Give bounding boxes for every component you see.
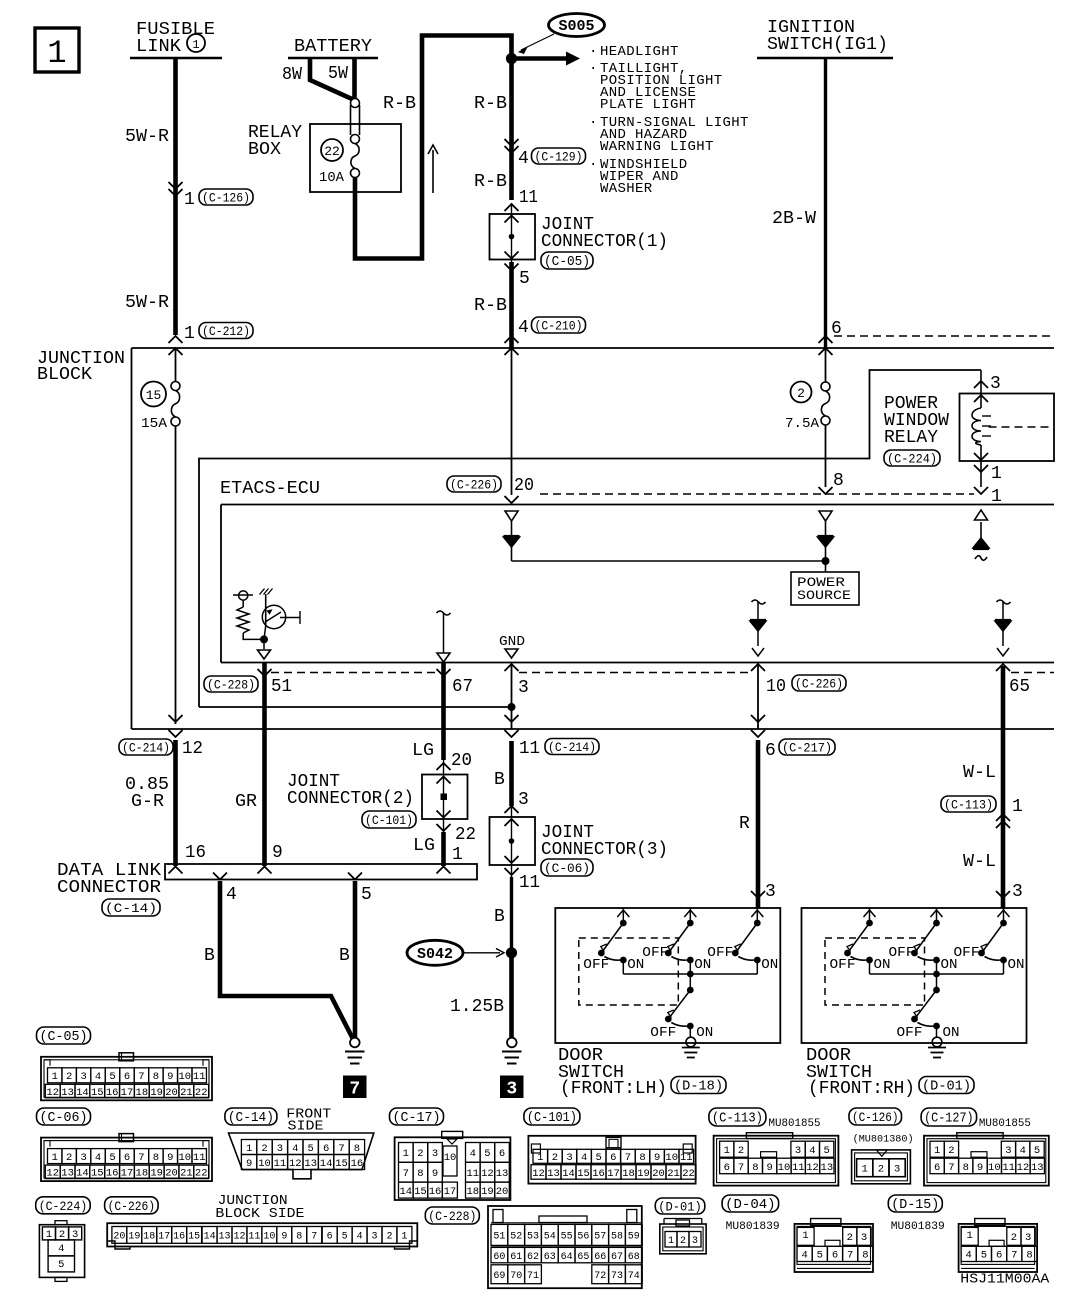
svg-text:4: 4 — [1020, 1145, 1026, 1157]
connector C-17 pinout — [395, 1137, 511, 1200]
svg-text:11: 11 — [519, 873, 540, 893]
svg-text:5: 5 — [1034, 1145, 1040, 1157]
svg-text:15: 15 — [91, 1087, 104, 1099]
dashed branch line top right — [834, 335, 1054, 337]
svg-text:14: 14 — [204, 1232, 216, 1243]
svg-text:(C-14): (C-14) — [105, 901, 157, 916]
svg-text:SWITCH(IG1): SWITCH(IG1) — [767, 35, 888, 55]
svg-text:(MU801380): (MU801380) — [853, 1134, 914, 1146]
svg-text:5: 5 — [342, 1232, 348, 1243]
svg-text:R-B: R-B — [474, 94, 507, 114]
svg-text:OFF: OFF — [830, 957, 856, 973]
svg-text:1: 1 — [52, 1152, 58, 1164]
svg-text:(FRONT:LH): (FRONT:LH) — [560, 1079, 667, 1099]
dlc pin 4 — [213, 873, 227, 880]
svg-text:11: 11 — [466, 1168, 479, 1180]
svg-text:62: 62 — [527, 1252, 539, 1263]
svg-text:GR: GR — [235, 792, 257, 812]
svg-text:8: 8 — [862, 1250, 868, 1262]
connector C-06 label — [37, 1108, 91, 1125]
svg-text:13: 13 — [61, 1087, 74, 1099]
svg-text:2: 2 — [66, 1152, 72, 1164]
relay output arrow pin 1 ecu — [974, 487, 988, 494]
ecu pin 65 — [996, 664, 1010, 671]
svg-text:1: 1 — [668, 1236, 674, 1247]
svg-text:(C-228): (C-228) — [428, 1209, 476, 1224]
connector C-101 pinout — [528, 1136, 695, 1184]
svg-text:8: 8 — [1026, 1250, 1032, 1262]
ignition switch terminal bar — [757, 57, 893, 60]
svg-text:W-L: W-L — [963, 763, 996, 783]
svg-text:(C-126): (C-126) — [202, 191, 250, 206]
etacs ecu inner box — [221, 504, 1054, 506]
svg-text:2: 2 — [948, 1145, 954, 1157]
svg-text:5: 5 — [361, 885, 372, 905]
dashed pin row line 1 — [271, 672, 437, 674]
joint connector 1 box — [505, 204, 519, 211]
svg-text:2: 2 — [680, 1236, 686, 1247]
svg-text:51: 51 — [271, 677, 292, 697]
svg-text:3: 3 — [765, 882, 776, 902]
door switch front LH box — [555, 908, 780, 1043]
svg-text:68: 68 — [628, 1252, 640, 1263]
svg-text:63: 63 — [544, 1252, 556, 1263]
svg-text:ON: ON — [1008, 957, 1025, 973]
dashed pin row line 2 — [519, 672, 751, 674]
connector C-224 pinout — [39, 1225, 84, 1278]
svg-text:6: 6 — [327, 1232, 333, 1243]
svg-text:2: 2 — [417, 1148, 423, 1160]
connector C-126 pass-through — [169, 189, 183, 196]
svg-text:8: 8 — [963, 1162, 969, 1174]
svg-text:(C-05): (C-05) — [544, 255, 590, 270]
diode from pin 20 — [505, 511, 518, 521]
diode from relay pin 1 — [975, 510, 988, 520]
svg-text:G-R: G-R — [131, 792, 164, 812]
svg-text:·: · — [589, 61, 597, 77]
svg-text:S042: S042 — [417, 946, 453, 963]
svg-text:(FRONT:RH): (FRONT:RH) — [808, 1079, 915, 1099]
wire 2B-W — [824, 58, 827, 348]
fusible link terminal bar — [130, 57, 222, 60]
svg-text:72: 72 — [594, 1271, 606, 1282]
svg-text:1: 1 — [47, 35, 66, 72]
svg-text:73: 73 — [611, 1271, 623, 1282]
svg-text:18: 18 — [136, 1168, 149, 1180]
svg-text:·: · — [589, 44, 597, 60]
svg-text:R-B: R-B — [383, 94, 416, 114]
svg-text:13: 13 — [61, 1168, 74, 1180]
svg-text:B: B — [494, 907, 505, 927]
svg-text:4: 4 — [470, 1148, 476, 1160]
svg-text:6: 6 — [124, 1071, 130, 1083]
svg-text:2: 2 — [797, 386, 805, 401]
svg-text:11: 11 — [1002, 1162, 1015, 1174]
svg-text:OFF: OFF — [650, 1025, 676, 1041]
wire battery right 5W — [352, 58, 357, 99]
dashed pin row line 3 — [1011, 672, 1054, 674]
current direction arrow — [432, 150, 434, 193]
svg-text:12: 12 — [806, 1162, 819, 1174]
svg-text:71: 71 — [527, 1271, 539, 1282]
power window relay box — [960, 394, 1055, 462]
svg-text:OFF: OFF — [707, 945, 733, 961]
svg-text:10: 10 — [178, 1152, 191, 1164]
power window relay feed wire — [199, 370, 981, 707]
connector C-214 left — [119, 739, 173, 755]
connector C-226 label — [105, 1197, 159, 1214]
svg-text:8: 8 — [639, 1152, 645, 1164]
splice S042 pointer arrow — [464, 952, 501, 954]
svg-text:4: 4 — [226, 885, 237, 905]
svg-text:(C-217): (C-217) — [782, 741, 832, 756]
svg-text:17: 17 — [121, 1087, 134, 1099]
svg-text:HSJ11M00AA: HSJ11M00AA — [960, 1272, 1050, 1288]
svg-text:59: 59 — [628, 1232, 640, 1243]
svg-text:67: 67 — [611, 1252, 623, 1263]
svg-text:(D-18): (D-18) — [674, 1080, 723, 1095]
svg-text:60: 60 — [493, 1252, 505, 1263]
svg-text:13: 13 — [547, 1168, 560, 1180]
svg-text:10A: 10A — [319, 170, 345, 186]
page number box 1 — [35, 28, 79, 72]
svg-text:5: 5 — [596, 1152, 602, 1164]
connector C-210 — [505, 336, 519, 343]
svg-text:1: 1 — [724, 1145, 730, 1157]
svg-text:3: 3 — [795, 1145, 801, 1157]
svg-text:CONNECTOR(2): CONNECTOR(2) — [287, 789, 414, 809]
svg-text:58: 58 — [611, 1232, 623, 1243]
ecu pin 51 — [258, 669, 272, 676]
wire W-L upper — [1001, 666, 1006, 908]
svg-text:OFF: OFF — [642, 945, 668, 961]
svg-text:1: 1 — [184, 190, 195, 210]
ground tag 3 — [500, 1076, 524, 1099]
svg-text:15: 15 — [577, 1168, 590, 1180]
wire R-B to joint connector 1 — [509, 61, 514, 200]
svg-text:7: 7 — [311, 1232, 317, 1243]
svg-text:LG: LG — [412, 741, 434, 761]
svg-text:GND: GND — [499, 634, 525, 650]
wire 5W-R upper — [173, 58, 178, 335]
svg-text:MU801839: MU801839 — [726, 1221, 780, 1233]
svg-text:18: 18 — [466, 1186, 479, 1198]
svg-text:12: 12 — [233, 1232, 245, 1243]
svg-text:6: 6 — [124, 1152, 130, 1164]
svg-text:9: 9 — [281, 1232, 287, 1243]
connector C-14 label — [225, 1108, 277, 1125]
svg-text:(C-05): (C-05) — [40, 1030, 88, 1045]
junction block exit chevrons fusible wire — [169, 715, 183, 722]
svg-text:16: 16 — [106, 1087, 119, 1099]
svg-text:1: 1 — [184, 324, 195, 344]
label pin 11 jc3 — [505, 868, 519, 875]
svg-text:11: 11 — [274, 1158, 287, 1170]
svg-text:6: 6 — [724, 1162, 730, 1174]
connector C-224 label — [36, 1197, 90, 1214]
svg-text:17: 17 — [121, 1168, 134, 1180]
svg-text:5W-R: 5W-R — [125, 127, 169, 147]
svg-text:2: 2 — [1011, 1232, 1017, 1244]
connector C-127 pinout — [924, 1136, 1049, 1186]
power source box — [791, 572, 859, 605]
svg-text:5: 5 — [109, 1152, 115, 1164]
svg-text:(C-214): (C-214) — [548, 740, 596, 755]
svg-text:9: 9 — [246, 1158, 252, 1170]
svg-text:4: 4 — [58, 1243, 64, 1255]
svg-text:(C-226): (C-226) — [450, 478, 498, 493]
svg-text:W-L: W-L — [963, 852, 996, 872]
svg-text:WASHER: WASHER — [600, 181, 653, 197]
svg-text:(D-01): (D-01) — [922, 1080, 971, 1095]
svg-text:BLOCK: BLOCK — [37, 365, 92, 385]
svg-text:ON: ON — [761, 957, 778, 973]
svg-text:16: 16 — [592, 1168, 605, 1180]
connector D-01 label — [655, 1198, 705, 1214]
fusible link element in relay box — [351, 99, 360, 108]
data link connector box — [165, 864, 477, 880]
svg-text:21: 21 — [667, 1168, 680, 1180]
svg-text:15: 15 — [335, 1158, 348, 1170]
wire battery left 8W — [310, 58, 352, 99]
svg-text:(C-214): (C-214) — [122, 741, 170, 756]
svg-text:3: 3 — [372, 1232, 378, 1243]
svg-text:2: 2 — [386, 1232, 392, 1243]
svg-text:20: 20 — [451, 751, 472, 771]
connector C-126 label — [849, 1108, 902, 1125]
splice S005 pointer — [521, 34, 554, 50]
ecu pin 10 — [751, 664, 765, 671]
lamp symbol — [233, 594, 253, 596]
svg-text:(C-224): (C-224) — [39, 1199, 88, 1214]
svg-text:67: 67 — [452, 677, 473, 697]
svg-text:1: 1 — [537, 1152, 543, 1164]
ground tag 7 — [343, 1076, 367, 1099]
svg-text:3: 3 — [566, 1152, 572, 1164]
svg-text:(C-127): (C-127) — [924, 1112, 974, 1127]
svg-text:BLOCK SIDE: BLOCK SIDE — [215, 1206, 304, 1222]
wire B to splice S042 — [510, 877, 513, 953]
svg-text:(D-15): (D-15) — [891, 1198, 939, 1213]
svg-text:70: 70 — [510, 1271, 522, 1282]
svg-text:9: 9 — [272, 843, 283, 863]
svg-text:16: 16 — [173, 1232, 185, 1243]
svg-text:R-B: R-B — [474, 172, 507, 192]
svg-text:1: 1 — [966, 1230, 972, 1242]
svg-text:MU801855: MU801855 — [769, 1118, 821, 1130]
svg-text:7: 7 — [138, 1071, 144, 1083]
svg-text:5: 5 — [981, 1250, 987, 1262]
svg-text:(C-126): (C-126) — [852, 1110, 899, 1125]
svg-text:2B-W: 2B-W — [772, 209, 816, 229]
svg-text:5: 5 — [823, 1145, 829, 1157]
svg-text:3: 3 — [518, 790, 529, 810]
svg-text:6: 6 — [765, 741, 776, 761]
svg-text:10: 10 — [766, 677, 786, 697]
svg-text:1: 1 — [991, 464, 1002, 484]
wire B dlc5 — [353, 881, 358, 1038]
svg-text:16: 16 — [185, 843, 206, 863]
svg-text:MU801855: MU801855 — [979, 1118, 1031, 1130]
svg-text:6: 6 — [832, 1250, 838, 1262]
connector C-113 label — [709, 1108, 766, 1126]
svg-text:5: 5 — [58, 1259, 64, 1271]
joint connector 2 box — [422, 775, 468, 820]
svg-text:6: 6 — [499, 1148, 505, 1160]
relay pin 3 — [974, 381, 988, 388]
svg-text:(C-101): (C-101) — [527, 1111, 577, 1126]
ecu pin 67 internal — [437, 611, 451, 615]
svg-text:ETACS-ECU: ETACS-ECU — [220, 479, 320, 499]
wire GR — [262, 663, 267, 866]
svg-text:13: 13 — [1031, 1162, 1044, 1174]
svg-text:(C-17): (C-17) — [393, 1111, 441, 1126]
svg-text:3: 3 — [1025, 1232, 1031, 1244]
svg-text:15A: 15A — [141, 416, 168, 432]
resistor — [237, 607, 249, 633]
svg-text:CONNECTOR(3): CONNECTOR(3) — [541, 840, 668, 860]
svg-text:1: 1 — [802, 1230, 808, 1242]
connector C-113 pinout — [714, 1136, 839, 1186]
svg-text:5W: 5W — [328, 64, 348, 84]
svg-text:(C-101): (C-101) — [365, 813, 413, 828]
splice S042 node dot — [506, 947, 517, 958]
svg-text:19: 19 — [128, 1232, 140, 1243]
svg-text:2: 2 — [847, 1232, 853, 1244]
svg-text:SIDE: SIDE — [288, 1119, 324, 1135]
svg-text:2: 2 — [878, 1164, 884, 1176]
svg-text:10: 10 — [778, 1162, 791, 1174]
diode from pin 8 — [819, 511, 832, 521]
svg-text:4: 4 — [518, 149, 529, 169]
ecu pin 10 internal diode — [752, 600, 766, 604]
svg-text:56: 56 — [577, 1232, 589, 1243]
wire B upper — [509, 741, 514, 806]
connector D-04 label — [722, 1195, 779, 1212]
svg-text:7: 7 — [948, 1162, 954, 1174]
svg-text:(C-113): (C-113) — [944, 798, 993, 813]
svg-text:14: 14 — [76, 1168, 89, 1180]
connector C-05 pinout — [41, 1057, 212, 1101]
svg-text:BATTERY: BATTERY — [294, 37, 372, 57]
svg-text:21: 21 — [180, 1087, 193, 1099]
svg-text:(D-01): (D-01) — [658, 1200, 702, 1215]
svg-text:61: 61 — [510, 1252, 522, 1263]
svg-text:CONNECTOR(1): CONNECTOR(1) — [541, 232, 668, 252]
connector C-228 label — [425, 1207, 479, 1224]
svg-text:3: 3 — [894, 1164, 900, 1176]
svg-text:SOURCE: SOURCE — [797, 588, 851, 603]
splice S005 node dot — [506, 53, 517, 64]
wire 1.25B — [509, 953, 514, 1038]
svg-text:19: 19 — [150, 1168, 163, 1180]
ground G3 — [507, 1038, 517, 1048]
wire battery to splice S005 — [355, 36, 512, 259]
svg-text:8: 8 — [296, 1232, 302, 1243]
svg-text:22: 22 — [195, 1168, 208, 1180]
fuse 15 15A — [141, 382, 166, 407]
connector D-15 pinout — [959, 1224, 1038, 1272]
svg-text:20: 20 — [514, 476, 534, 496]
connector C-113 pass-through — [941, 796, 996, 812]
joint connector 3 box — [490, 817, 536, 865]
svg-text:OFF: OFF — [583, 957, 609, 973]
svg-text:69: 69 — [493, 1271, 505, 1282]
svg-text:13: 13 — [219, 1232, 231, 1243]
wire pin10 to C-217 — [757, 663, 759, 729]
svg-text:8: 8 — [153, 1071, 159, 1083]
svg-text:(C-113): (C-113) — [712, 1112, 763, 1127]
svg-text:OFF: OFF — [889, 945, 915, 961]
svg-text:3: 3 — [990, 374, 1001, 394]
svg-text:65: 65 — [577, 1252, 589, 1263]
svg-text:55: 55 — [561, 1232, 573, 1243]
wire to ecu pin 20 — [511, 349, 513, 495]
wire pin3 to C-214 — [511, 663, 513, 729]
wire B dlc4 — [220, 881, 353, 1039]
svg-text:22: 22 — [455, 825, 476, 845]
svg-text:17: 17 — [607, 1168, 620, 1180]
arrow to load list — [512, 56, 569, 61]
ecu pin 67 — [437, 669, 451, 676]
svg-text:(C-224): (C-224) — [887, 452, 937, 467]
dlc pin 5 — [348, 873, 362, 880]
svg-text:4: 4 — [581, 1152, 587, 1164]
connector C-226 label top — [447, 476, 501, 492]
label pin 5 joint connector 1 — [505, 264, 519, 271]
svg-text:17: 17 — [158, 1232, 170, 1243]
svg-text:3: 3 — [506, 1080, 517, 1100]
svg-text:13: 13 — [304, 1158, 317, 1170]
svg-text:14: 14 — [399, 1186, 412, 1198]
svg-text:·: · — [589, 157, 597, 173]
svg-text:4: 4 — [801, 1250, 807, 1262]
transistor Q1 — [262, 605, 285, 628]
svg-text:3: 3 — [432, 1148, 438, 1160]
door switch front RH box — [802, 908, 1027, 1043]
svg-text:12: 12 — [532, 1168, 545, 1180]
svg-text:54: 54 — [544, 1232, 556, 1243]
svg-text:ON: ON — [696, 1025, 713, 1041]
svg-text:B: B — [204, 946, 215, 966]
connector C-127 label — [921, 1108, 977, 1126]
svg-text:7: 7 — [847, 1250, 853, 1262]
wire 0.85 G-R — [173, 740, 178, 866]
svg-text:20: 20 — [165, 1168, 178, 1180]
svg-text:1: 1 — [246, 1143, 252, 1155]
connector D-15 label — [888, 1195, 942, 1212]
junction block entry chevrons ignition — [819, 336, 833, 343]
svg-text:3: 3 — [1012, 882, 1023, 902]
relay coil — [980, 370, 982, 408]
svg-text:14: 14 — [320, 1158, 333, 1170]
relay coil dashed link — [989, 426, 1055, 428]
svg-text:(C-226): (C-226) — [795, 677, 843, 692]
svg-text:4: 4 — [809, 1145, 815, 1157]
svg-text:(C-226): (C-226) — [108, 1199, 156, 1214]
wire from fuse 15 down — [175, 349, 177, 382]
svg-text:8: 8 — [833, 471, 844, 491]
power source bus wire — [512, 560, 826, 562]
fuse 2 7.5A — [791, 382, 812, 403]
svg-text:9: 9 — [432, 1168, 438, 1180]
svg-text:6: 6 — [610, 1152, 616, 1164]
svg-text:(C-228): (C-228) — [207, 678, 255, 693]
svg-text:3: 3 — [1005, 1145, 1011, 1157]
svg-text:10: 10 — [178, 1071, 191, 1083]
svg-text:10: 10 — [988, 1162, 1001, 1174]
svg-text:3: 3 — [277, 1143, 283, 1155]
